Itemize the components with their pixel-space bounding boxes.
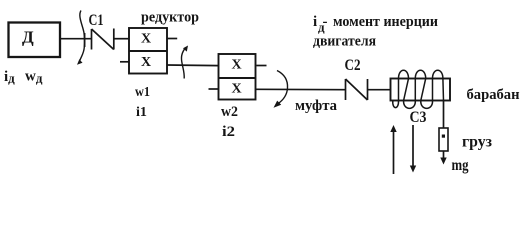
svg-text:Д: Д (22, 28, 34, 47)
svg-text:mg: mg (452, 157, 469, 174)
svg-text:w2: w2 (221, 104, 238, 120)
svg-text:w1: w1 (135, 85, 150, 100)
svg-text:i2: i2 (222, 124, 235, 140)
svg-text:i1: i1 (136, 105, 147, 120)
svg-text:-: - (323, 14, 328, 30)
svg-text:wд: wд (25, 69, 43, 86)
svg-text:C3: C3 (410, 109, 427, 126)
svg-text:барабан: барабан (467, 87, 520, 103)
svg-text:X: X (232, 82, 242, 97)
svg-text:C1: C1 (89, 12, 104, 29)
svg-text:X: X (141, 32, 151, 47)
svg-text:X: X (232, 58, 242, 73)
svg-text:груз: груз (462, 134, 492, 151)
svg-text:редуктор: редуктор (141, 10, 199, 26)
svg-text:X: X (141, 55, 151, 70)
svg-text:момент инерции: момент инерции (333, 14, 438, 30)
svg-text:iд: iд (4, 69, 15, 86)
svg-text:i: i (313, 14, 317, 30)
svg-text:C2: C2 (345, 57, 361, 74)
svg-text:муфта: муфта (295, 98, 337, 114)
svg-text:двигателя: двигателя (313, 34, 376, 50)
